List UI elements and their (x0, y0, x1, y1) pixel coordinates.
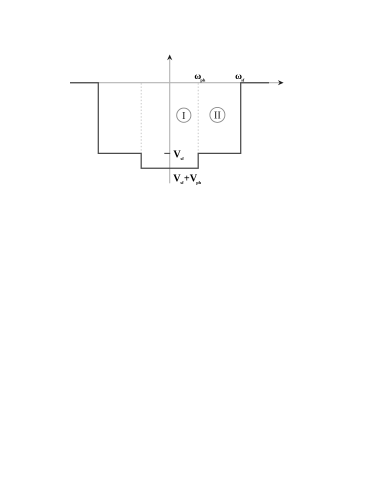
x-axis arrowhead (278, 80, 284, 85)
svg-text:sf: sf (241, 77, 245, 82)
y-axis arrowhead (167, 55, 172, 61)
region II circle (210, 107, 225, 122)
tick at -Vsf level on y-axis (164, 152, 170, 154)
svg-text:I: I (182, 111, 186, 122)
dashed guide at +omega_ph (x=198.2) (197, 83, 199, 153)
label omega_sf (235, 72, 245, 82)
dashed guide at -omega_ph (x=141.2) (140, 83, 142, 153)
label Vsf (173, 150, 184, 162)
x-axis (70, 82, 280, 84)
svg-text:sf: sf (181, 156, 185, 161)
potential well outline (70, 83, 269, 169)
y-axis (169, 59, 171, 183)
svg-text:ph: ph (196, 180, 201, 185)
svg-text:II: II (214, 111, 222, 122)
svg-text:ph: ph (200, 77, 205, 82)
label Vsf+Vph (173, 174, 201, 186)
region I circle (177, 108, 191, 122)
label omega_ph (194, 72, 205, 82)
